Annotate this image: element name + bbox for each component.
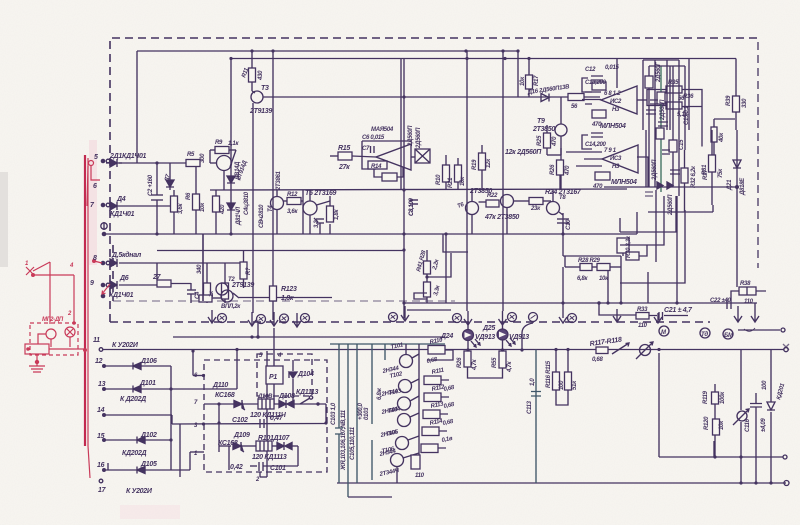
svg-text:3,6к: 3,6к [178, 203, 184, 214]
svg-text:2Т3861: 2Т3861 [276, 170, 282, 191]
svg-text:340: 340 [197, 264, 203, 274]
svg-text:2Т3850: 2Т3850 [532, 126, 555, 133]
svg-text:6,8к: 6,8к [577, 276, 588, 282]
svg-text:0,47: 0,47 [270, 415, 284, 422]
svg-text:Д108: Д108 [278, 393, 295, 400]
svg-text:R14: R14 [371, 164, 382, 170]
svg-text:R39: R39 [726, 95, 732, 106]
svg-text:4,7к: 4,7к [507, 361, 513, 373]
svg-text:1,1к: 1,1к [228, 141, 239, 147]
svg-text:430: 430 [258, 70, 264, 81]
svg-text:R119: R119 [703, 390, 709, 404]
svg-text:15: 15 [97, 433, 105, 440]
svg-text:С15,0,1: С15,0,1 [684, 105, 690, 125]
svg-text:С10: С10 [566, 219, 572, 230]
svg-text:ИС3: ИС3 [610, 156, 622, 162]
svg-text:R120: R120 [704, 416, 710, 430]
svg-text:12к: 12к [486, 158, 492, 168]
svg-text:VД913: VД913 [475, 334, 495, 341]
svg-text:С21 ± 4,7: С21 ± 4,7 [664, 307, 693, 314]
svg-text:2Д560П: 2Д560П [660, 99, 666, 121]
svg-text:Д6: Д6 [119, 275, 129, 282]
svg-text:Т3: Т3 [261, 85, 269, 92]
svg-text:R19: R19 [472, 159, 478, 170]
svg-text:12: 12 [95, 358, 103, 365]
svg-text:6 8 1 2: 6 8 1 2 [604, 91, 621, 97]
svg-text:R10: R10 [436, 174, 442, 185]
svg-text:0103: 0103 [364, 407, 370, 420]
svg-text:14: 14 [97, 407, 105, 414]
svg-text:R25: R25 [537, 135, 543, 146]
svg-text:3,6к: 3,6к [287, 209, 298, 215]
svg-text:R15: R15 [338, 145, 350, 152]
svg-text:Т9: Т9 [537, 118, 545, 125]
svg-text:КД1Ч01: КД1Ч01 [110, 211, 135, 218]
svg-text:56: 56 [571, 104, 578, 110]
svg-text:Н3: Н3 [612, 164, 620, 170]
svg-text:КД202Д: КД202Д [122, 450, 147, 457]
svg-text:ЖЯ,103,106,107,NВ,111: ЖЯ,103,106,107,NВ,111 [341, 409, 347, 471]
svg-text:0,68: 0,68 [592, 357, 603, 363]
svg-text:7 9 1: 7 9 1 [604, 148, 617, 154]
svg-text:Т4: Т4 [268, 205, 274, 212]
svg-text:16: 16 [97, 462, 105, 469]
svg-text:2Д560П: 2Д560П [668, 194, 674, 216]
svg-text:12к 2Д560П: 12к 2Д560П [505, 149, 542, 156]
svg-text:R55: R55 [492, 357, 498, 368]
svg-text:120 КД1113: 120 КД1113 [252, 454, 287, 461]
svg-text:R116 R115: R116 R115 [546, 360, 552, 388]
svg-text:R123: R123 [281, 286, 297, 293]
svg-text:5: 5 [94, 154, 98, 161]
svg-text:6: 6 [93, 183, 97, 190]
svg-text:100: 100 [762, 380, 768, 390]
svg-text:R6: R6 [186, 192, 192, 200]
svg-text:330: 330 [742, 98, 748, 108]
svg-text:С7: С7 [362, 146, 370, 152]
svg-text:Н3: Н3 [612, 107, 620, 113]
svg-text:R37: R37 [703, 169, 709, 180]
svg-text:Д101: Д101 [139, 380, 156, 387]
svg-text:27: 27 [152, 274, 162, 281]
svg-text:R101Д107: R101Д107 [258, 435, 290, 442]
svg-text:Д,5кднал: Д,5кднал [111, 251, 142, 259]
svg-text:2Т9139: 2Т9139 [249, 108, 272, 115]
svg-text:2Д560П: 2Д560П [416, 127, 422, 149]
svg-text:ДВ14Д: ДВ14Д [235, 161, 241, 181]
svg-text:100к: 100к [720, 391, 726, 404]
svg-text:1,0: 1,0 [530, 378, 536, 386]
svg-text:С101: С101 [270, 465, 286, 472]
svg-text:Д818Е: Д818Е [740, 177, 746, 196]
svg-text:С116: С116 [745, 418, 751, 432]
svg-text:Т8: Т8 [559, 195, 566, 201]
svg-text:40к: 40к [719, 132, 725, 143]
svg-text:С13,200: С13,200 [585, 80, 607, 86]
svg-text:R32 6,2к: R32 6,2к [691, 165, 697, 188]
svg-text:С6 0,015: С6 0,015 [362, 135, 385, 141]
svg-text:27к: 27к [338, 164, 350, 171]
svg-text:МЛН504: МЛН504 [600, 123, 626, 130]
svg-text:БМ: БМ [724, 333, 734, 339]
svg-text:10к: 10к [200, 202, 206, 212]
svg-text:Д110: Д110 [212, 382, 228, 389]
svg-text:9: 9 [90, 280, 94, 287]
svg-text:КС168: КС168 [215, 392, 235, 399]
svg-text:С2 +160: С2 +160 [148, 174, 154, 196]
svg-text:С4: С4 [195, 291, 201, 299]
svg-text:8: 8 [93, 255, 97, 262]
svg-text:СВч2810: СВч2810 [259, 204, 265, 228]
svg-text:10к: 10к [520, 76, 526, 86]
svg-text:R38: R38 [740, 281, 751, 287]
svg-text:Д25: Д25 [482, 325, 495, 332]
svg-text:КД1113: КД1113 [296, 389, 318, 396]
svg-text:R?: R? [246, 267, 252, 275]
svg-text:ИС2: ИС2 [610, 99, 622, 105]
svg-text:0,015: 0,015 [605, 65, 619, 71]
svg-text:С113: С113 [527, 400, 533, 414]
svg-text:Р1: Р1 [269, 374, 277, 381]
svg-text:0,42: 0,42 [230, 464, 243, 471]
svg-text:С15: С15 [679, 139, 685, 150]
svg-text:13: 13 [98, 381, 106, 388]
svg-text:ВПЛ,2к: ВПЛ,2к [221, 304, 241, 310]
svg-text:75к: 75к [718, 168, 724, 178]
svg-text:Т5 2Т3169: Т5 2Т3169 [305, 190, 337, 197]
svg-text:С22 ±40: С22 ±40 [710, 298, 732, 304]
svg-text:R35: R35 [668, 80, 679, 86]
svg-text:±4,09: ±4,09 [761, 418, 767, 432]
svg-text:470: 470 [592, 184, 603, 190]
svg-text:С12: С12 [585, 67, 596, 73]
svg-text:К Д202Д: К Д202Д [120, 396, 146, 403]
svg-text:11: 11 [93, 337, 100, 344]
svg-text:23к: 23к [530, 206, 541, 212]
svg-text:2Д1КД1Ч01: 2Д1КД1Ч01 [109, 153, 147, 160]
svg-text:420: 420 [220, 204, 226, 215]
svg-text:R26: R26 [457, 357, 463, 368]
svg-text:R33: R33 [637, 307, 648, 313]
svg-text:110: 110 [744, 299, 754, 305]
svg-text:100: 100 [559, 380, 565, 390]
svg-text:R21: R21 [448, 177, 454, 188]
svg-text:С103 1,0: С103 1,0 [331, 402, 337, 425]
svg-text:47к 2Т3850: 47к 2Т3850 [484, 214, 519, 221]
svg-text:Д102: Д102 [140, 432, 157, 439]
svg-text:R30 3,3к: R30 3,3к [626, 235, 632, 258]
svg-text:МГ2-ДП: МГ2-ДП [42, 317, 64, 323]
svg-text:R9: R9 [215, 140, 223, 146]
svg-text:470: 470 [552, 136, 558, 147]
svg-text:R5: R5 [187, 152, 195, 158]
svg-text:С105,110,111: С105,110,111 [350, 426, 356, 460]
svg-text:Тд: Тд [701, 332, 708, 338]
svg-text:10к: 10к [460, 176, 466, 186]
svg-text:МЛН504: МЛН504 [611, 179, 637, 186]
svg-text:Д4: Д4 [116, 196, 126, 203]
svg-text:1,8к: 1,8к [334, 209, 340, 220]
svg-text:VД913: VД913 [509, 334, 529, 341]
svg-text:R22: R22 [487, 193, 498, 199]
svg-text:Д109: Д109 [233, 432, 250, 439]
svg-text:КД1Ч01: КД1Ч01 [109, 292, 134, 299]
svg-text:С102: С102 [232, 417, 248, 424]
svg-text:К У202И: К У202И [112, 342, 139, 349]
svg-text:300: 300 [200, 153, 206, 163]
svg-text:Д105: Д105 [140, 461, 157, 468]
svg-text:МАЯ504: МАЯ504 [371, 127, 394, 133]
svg-text:Д81ЧЛ: Д81ЧЛ [236, 206, 242, 226]
svg-text:51к: 51к [572, 380, 578, 390]
svg-text:Д10В: Д10В [257, 394, 273, 400]
svg-text:Д21: Д21 [727, 179, 733, 191]
svg-text:10к: 10к [599, 276, 609, 282]
svg-text:110: 110 [638, 323, 648, 329]
svg-text:R26: R26 [550, 164, 556, 175]
svg-text:3,3: 3,3 [314, 220, 320, 228]
svg-text:2Т9139: 2Т9139 [231, 282, 254, 289]
svg-text:R17: R17 [534, 75, 540, 86]
svg-text:Д106: Д106 [140, 358, 157, 365]
svg-text:2Д560П: 2Д560П [408, 125, 414, 147]
svg-text:4,7к: 4,7к [472, 359, 478, 371]
svg-text:1,8к: 1,8к [281, 295, 294, 302]
svg-text:10к: 10к [719, 420, 725, 430]
svg-text:470: 470 [565, 165, 571, 176]
svg-text:С4ц3810: С4ц3810 [244, 191, 250, 215]
svg-text:110: 110 [415, 473, 425, 479]
svg-text:2Д560П: 2Д560П [652, 159, 658, 181]
svg-text:К У202И: К У202И [126, 488, 153, 495]
svg-text:КС168: КС168 [218, 440, 238, 447]
svg-text:Д104: Д104 [297, 371, 314, 378]
svg-text:R36: R36 [683, 94, 694, 100]
svg-text:Д24: Д24 [440, 333, 453, 340]
svg-text:R12: R12 [287, 192, 298, 198]
